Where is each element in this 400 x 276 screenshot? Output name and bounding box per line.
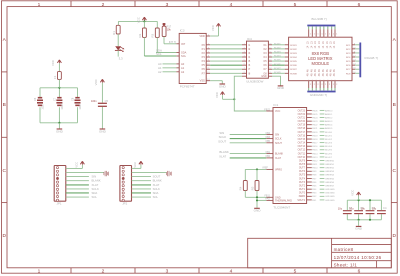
svg-text:GREEN2: GREEN2 [325, 168, 335, 170]
svg-text:RC7: RC7 [346, 69, 351, 71]
svg-text:R3: R3 [151, 33, 155, 37]
svg-text:ARED0: ARED0 [325, 109, 333, 112]
svg-text:OUT15: OUT15 [298, 139, 306, 141]
svg-text:BLUE2: BLUE2 [325, 139, 333, 141]
svg-text:FB3: FB3 [266, 136, 271, 139]
svg-text:100n: 100n [91, 100, 97, 103]
svg-text:SCL: SCL [153, 195, 159, 199]
svg-text:C4: C4 [383, 206, 387, 210]
svg-text:FB5: FB5 [266, 140, 271, 143]
svg-text:ROW4: ROW4 [274, 56, 281, 58]
svg-text:1: 1 [314, 34, 315, 36]
svg-text:1: 1 [38, 2, 41, 8]
svg-text:R2: R2 [138, 33, 142, 37]
svg-text:2: 2 [325, 84, 326, 86]
svg-text:3: 3 [166, 2, 169, 8]
svg-text:5: 5 [294, 2, 297, 8]
svg-text:FB25: FB25 [312, 114, 318, 116]
svg-text:P5: P5 [202, 63, 206, 67]
svg-text:XLAT: XLAT [275, 157, 282, 160]
svg-text:P2: P2 [202, 51, 206, 55]
svg-text:JP1: JP1 [57, 201, 62, 205]
svg-text:B: B [3, 102, 6, 108]
svg-text:FB23: FB23 [312, 121, 318, 123]
svg-text:SCLK: SCLK [275, 138, 282, 141]
svg-text:ARED5: ARED5 [325, 127, 333, 130]
svg-text:VCC: VCC [137, 17, 141, 23]
svg-text:4: 4 [230, 269, 233, 275]
svg-text:IC4: IC4 [247, 37, 252, 41]
svg-text:ROW8: ROW8 [274, 72, 281, 74]
svg-text:P4: P4 [202, 59, 206, 63]
svg-text:SCL: SCL [92, 195, 98, 199]
svg-text:6: 6 [358, 2, 361, 8]
svg-text:1: 1 [333, 34, 334, 36]
svg-text:1: 1 [325, 34, 326, 36]
svg-text:6: 6 [358, 269, 361, 275]
svg-text:GREEN1: GREEN1 [325, 164, 335, 166]
svg-text:FB22: FB22 [264, 108, 270, 111]
svg-text:VCC: VCC [133, 162, 137, 168]
svg-text:SCL: SCL [156, 52, 162, 56]
svg-text:VCC: VCC [350, 190, 354, 196]
svg-text:2: 2 [102, 269, 105, 275]
svg-text:GND: GND [254, 209, 262, 213]
svg-text:12/07/2014 10:50:26: 12/07/2014 10:50:26 [334, 255, 382, 260]
svg-text:FB15: FB15 [312, 150, 318, 152]
svg-text:VSS: VSS [200, 79, 205, 83]
svg-text:FB24: FB24 [312, 117, 318, 119]
svg-text:OUT1: OUT1 [299, 189, 306, 191]
svg-text:C6: C6 [33, 97, 37, 101]
svg-text:ULN2803DW: ULN2803DW [246, 80, 263, 84]
svg-text:A2: A2 [158, 70, 162, 74]
svg-text:BLUE6: BLUE6 [325, 153, 333, 155]
svg-text:ROW1: ROW1 [290, 45, 297, 47]
svg-text:10u: 10u [361, 207, 366, 210]
svg-text:RC4: RC4 [346, 57, 351, 59]
svg-text:2: 2 [336, 84, 337, 86]
svg-text:R5: R5 [250, 186, 254, 190]
svg-text:GND: GND [277, 86, 285, 90]
svg-text:MODULE: MODULE [312, 61, 330, 66]
svg-text:VCC: VCC [94, 79, 98, 85]
svg-text:SOUT2: SOUT2 [297, 200, 305, 202]
svg-text:TLC5940NT: TLC5940NT [273, 205, 290, 209]
svg-text:1: 1 [38, 269, 41, 275]
svg-text:2: 2 [333, 84, 334, 86]
svg-text:RC8: RC8 [346, 73, 351, 75]
svg-text:C8: C8 [71, 97, 75, 101]
svg-text:ARED2: ARED2 [325, 116, 333, 119]
svg-text:IC1: IC1 [273, 103, 278, 107]
svg-text:OUT16: OUT16 [298, 135, 306, 137]
svg-text:P7: P7 [202, 71, 206, 75]
svg-text:VCC: VCC [211, 25, 215, 31]
svg-text:1: 1 [322, 34, 323, 36]
svg-text:2: 2 [310, 84, 311, 86]
svg-text:2: 2 [318, 84, 319, 86]
svg-text:FB26: FB26 [312, 110, 318, 112]
svg-text:BLUE5: BLUE5 [325, 150, 333, 152]
svg-text:FB14: FB14 [312, 153, 318, 155]
svg-text:OUT18: OUT18 [298, 128, 306, 130]
svg-text:ROW7: ROW7 [274, 68, 281, 70]
svg-text:GNDGND: GNDGND [325, 196, 335, 198]
svg-text:OUT12: OUT12 [298, 150, 306, 152]
svg-text:SOUT: SOUT [275, 142, 282, 145]
svg-text:1: 1 [318, 34, 319, 36]
svg-text:100u: 100u [79, 104, 82, 110]
svg-text:ROW3: ROW3 [290, 53, 297, 55]
svg-text:RC1: RC1 [346, 45, 351, 47]
svg-text:BLUE4: BLUE4 [325, 146, 333, 148]
svg-text:GND: GND [355, 227, 363, 231]
svg-text:1: 1 [329, 34, 330, 36]
svg-text:RC2: RC2 [346, 49, 351, 51]
svg-text:C5: C5 [105, 99, 109, 103]
svg-text:5: 5 [294, 269, 297, 275]
svg-text:OUT0: OUT0 [299, 193, 306, 195]
svg-text:A0: A0 [181, 62, 185, 66]
svg-text:100u: 100u [61, 104, 64, 110]
svg-text:SOUT: SOUT [218, 139, 226, 143]
svg-text:2: 2 [322, 84, 323, 86]
svg-text:1: 1 [310, 34, 311, 36]
svg-text:Sheet: 1/1: Sheet: 1/1 [334, 263, 358, 268]
svg-text:P3: P3 [202, 55, 206, 59]
svg-text:OUT9: OUT9 [299, 160, 306, 162]
svg-text:matrice8: matrice8 [334, 247, 354, 252]
svg-text:OUT8: OUT8 [299, 164, 306, 166]
svg-text:FB1: FB1 [266, 151, 271, 154]
svg-text:ROW4: ROW4 [290, 57, 297, 59]
svg-text:P6: P6 [202, 67, 206, 71]
svg-text:FB21: FB21 [312, 128, 318, 130]
svg-text:ROW2: ROW2 [290, 49, 297, 51]
svg-text:4: 4 [230, 2, 233, 8]
svg-text:100u: 100u [42, 104, 45, 110]
svg-text:FB11: FB11 [312, 164, 318, 166]
svg-text:GNDGND: GNDGND [325, 193, 335, 195]
svg-text:OUT19: OUT19 [298, 125, 306, 127]
svg-text:R1: R1 [112, 31, 116, 35]
svg-text:D: D [392, 233, 396, 239]
svg-text:D: D [2, 233, 6, 239]
svg-text:ARED1: ARED1 [325, 113, 333, 116]
svg-text:ROW7: ROW7 [290, 69, 297, 71]
svg-text:GREEN4: GREEN4 [325, 175, 335, 177]
svg-text:FB20: FB20 [312, 132, 318, 134]
svg-text:FB19: FB19 [312, 135, 318, 137]
svg-text:ROW8: ROW8 [290, 73, 297, 75]
svg-text:OUT11: OUT11 [298, 153, 306, 155]
svg-text:BLUE0: BLUE0 [325, 132, 333, 134]
svg-text:P1: P1 [202, 47, 206, 51]
svg-text:THERMALPAD: THERMALPAD [275, 199, 292, 202]
svg-text:ROW1: ROW1 [274, 43, 281, 45]
svg-text:ROW2: ROW2 [274, 47, 281, 49]
svg-text:ROW3: ROW3 [274, 52, 281, 54]
svg-text:VPRG: VPRG [275, 168, 282, 171]
svg-text:2: 2 [329, 84, 330, 86]
svg-text:RC6: RC6 [346, 65, 351, 67]
svg-text:GND: GND [99, 129, 107, 133]
svg-text:FB2: FB2 [266, 155, 271, 158]
svg-text:PCF8574T: PCF8574T [180, 85, 195, 89]
svg-text:C: C [2, 168, 6, 174]
svg-text:FB16: FB16 [312, 146, 318, 148]
svg-text:ROW5: ROW5 [274, 60, 281, 62]
svg-text:3: 3 [166, 269, 169, 275]
svg-text:OUT21: OUT21 [298, 117, 306, 119]
svg-text:XLAT: XLAT [219, 155, 226, 159]
svg-text:C: C [392, 168, 396, 174]
svg-text:VCC: VCC [275, 110, 280, 113]
svg-text:VCC: VCC [75, 162, 79, 168]
svg-text:GND: GND [56, 129, 64, 133]
svg-text:OUT4: OUT4 [299, 178, 306, 180]
svg-text:BLUE3: BLUE3 [325, 143, 333, 145]
svg-text:ROW6: ROW6 [290, 65, 297, 67]
svg-text:SDA: SDA [181, 51, 187, 55]
svg-text:GREEN3: GREEN3 [325, 171, 335, 173]
svg-text:FB10: FB10 [312, 168, 318, 170]
svg-text:INT: INT [181, 42, 186, 46]
svg-text:OUT6: OUT6 [299, 171, 306, 173]
svg-text:3,3: 3,3 [119, 56, 123, 60]
svg-text:FB13: FB13 [312, 157, 318, 159]
svg-text:F1: F1 [53, 75, 57, 79]
svg-text:BLUE7: BLUE7 [325, 157, 333, 159]
svg-text:A2: A2 [181, 70, 185, 74]
svg-text:OUT10: OUT10 [298, 157, 306, 159]
svg-text:INT 7]: INT 7] [169, 40, 177, 44]
svg-text:ROW6: ROW6 [274, 64, 281, 66]
svg-text:VCC: VCC [51, 60, 55, 66]
svg-text:10u: 10u [349, 207, 354, 210]
svg-text:ROW5: ROW5 [290, 61, 297, 63]
svg-text:VCC: VCC [215, 92, 219, 98]
svg-text:R4: R4 [239, 186, 243, 190]
svg-text:1: 1 [336, 34, 337, 36]
svg-text:OUT2: OUT2 [299, 185, 306, 187]
svg-text:2: 2 [102, 2, 105, 8]
svg-text:SCL: SCL [181, 54, 187, 58]
svg-text:10u: 10u [338, 207, 343, 210]
svg-text:GREEN0: GREEN0 [325, 160, 335, 162]
svg-text:OUT20: OUT20 [298, 121, 306, 123]
svg-text:2: 2 [314, 84, 315, 86]
svg-text:10u: 10u [372, 207, 377, 210]
svg-text:GREEN7: GREEN7 [325, 185, 335, 187]
svg-text:RC3: RC3 [346, 53, 351, 55]
svg-text:OUT17: OUT17 [298, 132, 306, 134]
svg-text:IC3: IC3 [180, 29, 185, 33]
svg-text:GND: GND [219, 84, 227, 88]
svg-text:C7: C7 [53, 97, 57, 101]
svg-text:GNDGND 7]: GNDGND 7] [310, 93, 327, 97]
svg-text:GREEN6: GREEN6 [325, 182, 335, 184]
svg-text:GND: GND [261, 75, 267, 78]
svg-text:A1: A1 [181, 66, 185, 70]
svg-text:OUT7: OUT7 [299, 168, 306, 170]
svg-text:GNDGND: GNDGND [325, 200, 335, 202]
svg-text:BLANK: BLANK [275, 153, 284, 156]
svg-text:FB17: FB17 [312, 143, 318, 145]
svg-text:OUT23: OUT23 [298, 110, 306, 112]
svg-text:FB4: FB4 [266, 132, 271, 135]
svg-text:VDD: VDD [199, 34, 205, 38]
svg-text:OUT22: OUT22 [298, 114, 306, 116]
svg-text:BLU16B 7]: BLU16B 7] [312, 17, 327, 21]
svg-text:OUT14: OUT14 [298, 143, 306, 145]
svg-text:GNDGND: GNDGND [325, 189, 335, 191]
svg-text:GREEN5: GREEN5 [325, 178, 335, 180]
svg-text:FB22: FB22 [312, 125, 318, 127]
svg-text:XERR: XERR [299, 196, 306, 198]
svg-text:FB18: FB18 [312, 139, 318, 141]
svg-text:JP2: JP2 [122, 201, 127, 205]
svg-text:B: B [393, 102, 396, 108]
svg-text:RIGGB 7]: RIGGB 7] [365, 56, 379, 60]
svg-text:OUT5: OUT5 [299, 175, 306, 177]
svg-text:ARED4: ARED4 [325, 124, 333, 127]
svg-text:BLUE1: BLUE1 [325, 135, 333, 137]
svg-text:RC5: RC5 [346, 61, 351, 63]
svg-text:P0: P0 [202, 43, 206, 47]
svg-text:OUT13: OUT13 [298, 146, 306, 148]
svg-text:OUT3: OUT3 [299, 182, 306, 184]
svg-text:SIN: SIN [275, 134, 279, 137]
svg-text:ARED3: ARED3 [325, 120, 333, 123]
svg-text:FB12: FB12 [312, 160, 318, 162]
